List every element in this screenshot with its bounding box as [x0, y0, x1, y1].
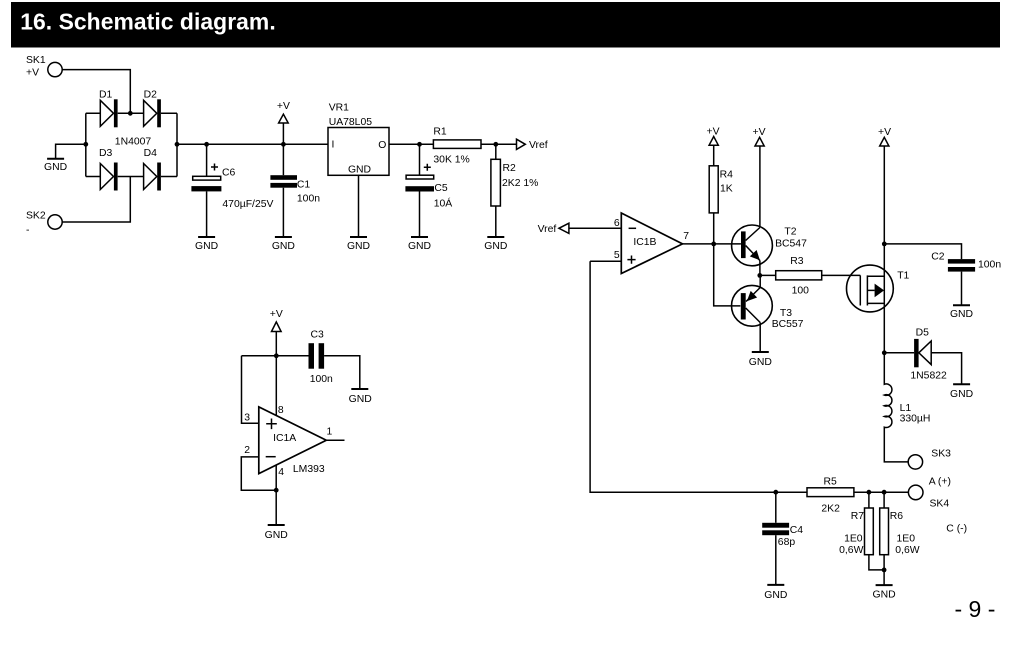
wire bottom rail R5 to SK4 — [854, 491, 909, 493]
svg-text:330µH: 330µH — [900, 414, 931, 425]
wire T3 collector to ground — [759, 323, 761, 353]
svg-text:IC1A: IC1A — [273, 433, 296, 444]
power +V above C3 — [270, 309, 283, 356]
op-amp IC1B — [614, 213, 689, 274]
power +V above T2 — [753, 127, 766, 228]
svg-text:0,6W: 0,6W — [839, 545, 863, 556]
svg-text:C2: C2 — [931, 251, 945, 262]
mosfet T1 — [847, 265, 910, 312]
svg-text:0,6W: 0,6W — [895, 545, 919, 556]
wire VR1 out to R1 — [389, 143, 433, 145]
wire pin5 down and bottom rail — [590, 261, 807, 492]
node pin4/pin2 junction — [274, 488, 279, 493]
svg-text:IC1B: IC1B — [633, 237, 656, 248]
svg-text:D5: D5 — [916, 327, 930, 338]
svg-text:GND: GND — [749, 357, 772, 368]
svg-text:16. Schematic diagram.: 16. Schematic diagram. — [20, 8, 276, 34]
svg-text:1N5822: 1N5822 — [910, 370, 947, 381]
node output/R4/T3 — [711, 242, 716, 247]
wire main rail bridge to VR1 — [177, 143, 328, 145]
svg-text:D1: D1 — [99, 90, 113, 101]
wire IC1A output — [326, 439, 344, 441]
svg-text:GND: GND — [950, 309, 973, 320]
node SK1/D1-D2 junction — [128, 111, 133, 116]
wire R7 stub — [868, 492, 870, 508]
diode D1 — [99, 90, 118, 128]
svg-text:+V: +V — [707, 126, 720, 137]
svg-text:+V: +V — [270, 309, 283, 320]
svg-text:GND: GND — [408, 241, 431, 252]
transistor T3 BC557 — [732, 285, 804, 330]
capacitor C5 — [405, 164, 452, 210]
svg-text:100: 100 — [792, 285, 810, 296]
wire SK1 to bridge top — [62, 70, 130, 114]
svg-text:VR1: VR1 — [329, 103, 349, 114]
ground T3 — [749, 352, 772, 368]
svg-text:GND: GND — [484, 241, 507, 252]
svg-text:D3: D3 — [99, 148, 113, 159]
svg-text:BC557: BC557 — [772, 319, 804, 330]
svg-text:100n: 100n — [978, 260, 1001, 271]
ground C2 — [950, 305, 973, 320]
wire IC1B output to T2 base — [683, 243, 741, 245]
svg-text:SK1: SK1 — [26, 55, 46, 66]
svg-text:GND: GND — [348, 164, 371, 175]
ground R6/R7 — [873, 585, 896, 600]
node emitters/R3 — [757, 273, 762, 278]
node R2 tap — [493, 142, 498, 147]
svg-text:- 9 -: - 9 - — [955, 596, 996, 622]
svg-text:1E0: 1E0 — [897, 533, 916, 544]
svg-text:1: 1 — [327, 426, 333, 437]
diode D5 1N5822 — [910, 327, 947, 381]
svg-text:2K2: 2K2 — [821, 503, 840, 514]
node drain/+V/C2 — [882, 242, 887, 247]
op-amp IC1A — [244, 405, 332, 478]
wire C3 right to ground — [324, 356, 360, 389]
wire bridge right side — [176, 113, 178, 176]
svg-text:GND: GND — [265, 530, 288, 541]
resistor R3 — [776, 256, 822, 296]
svg-text:5: 5 — [614, 250, 620, 261]
svg-text:R6: R6 — [890, 511, 904, 522]
svg-text:Vref: Vref — [538, 224, 557, 235]
title bar — [11, 2, 1000, 48]
svg-text:T3: T3 — [780, 308, 792, 319]
svg-text:Vref: Vref — [529, 140, 548, 151]
wire pin6 — [569, 227, 621, 229]
wire pin4 to ground — [275, 465, 277, 525]
svg-text:2: 2 — [244, 445, 250, 456]
wire node to R3 — [760, 274, 776, 276]
inductor L1 330uH — [884, 353, 930, 462]
wire T2 emitter to node — [759, 261, 761, 276]
resistor R1 — [433, 127, 481, 166]
svg-text:1E0: 1E0 — [844, 533, 863, 544]
diode D2 — [144, 90, 161, 128]
wire C4 branch — [775, 492, 777, 523]
node C4 tap — [773, 490, 778, 495]
svg-text:6: 6 — [614, 218, 620, 229]
svg-text:D2: D2 — [144, 90, 158, 101]
svg-text:470µF/25V: 470µF/25V — [222, 199, 273, 210]
wire to C2 — [884, 244, 961, 259]
svg-text:GND: GND — [950, 389, 973, 400]
wire to ground tap — [56, 144, 86, 159]
svg-text:A (+): A (+) — [929, 477, 951, 488]
node +V/C3/pin8 — [274, 353, 279, 358]
svg-text:GND: GND — [195, 241, 218, 252]
node R6 tap — [882, 490, 887, 495]
ground C5 — [408, 237, 431, 252]
connector SK1 — [26, 55, 62, 79]
wire R6 stub — [883, 492, 885, 508]
svg-text:C6: C6 — [222, 167, 236, 178]
wire C6 branch — [206, 144, 208, 176]
wire C6 to ground — [206, 191, 208, 237]
svg-text:GND: GND — [44, 162, 67, 173]
wire pin8 supply — [275, 356, 277, 416]
resistor R6 — [880, 508, 920, 556]
svg-text:SK4: SK4 — [930, 499, 950, 510]
ground IC1A — [265, 525, 288, 541]
power +V above T1 — [878, 127, 891, 244]
svg-text:100n: 100n — [297, 194, 320, 205]
svg-text:+V: +V — [277, 101, 290, 112]
svg-text:C5: C5 — [434, 183, 448, 194]
svg-text:4: 4 — [278, 467, 284, 478]
svg-text:1K: 1K — [720, 184, 733, 195]
svg-text:O: O — [378, 140, 386, 151]
svg-text:SK3: SK3 — [931, 449, 951, 460]
wire node to D5 — [884, 352, 914, 354]
svg-text:C3: C3 — [311, 330, 325, 341]
node R7/R6 bottom junction — [882, 568, 887, 573]
svg-text:R5: R5 — [824, 477, 838, 488]
svg-text:LM393: LM393 — [293, 464, 325, 475]
wire pin3 feed — [242, 356, 259, 424]
node C5 tap — [417, 142, 422, 147]
svg-text:D4: D4 — [144, 148, 158, 159]
transistor T2 BC547 — [732, 225, 807, 266]
wire C2 to ground — [961, 272, 963, 306]
wire bridge top row — [86, 112, 177, 114]
capacitor C3 — [309, 330, 334, 385]
capacitor C4 — [762, 523, 803, 548]
ground C4 — [764, 585, 787, 601]
net arrow Vref in — [538, 223, 569, 235]
node R7 tap — [867, 490, 872, 495]
ground D5 — [950, 384, 973, 400]
svg-text:1N4007: 1N4007 — [115, 137, 152, 148]
wire T1 drain-source vertical — [883, 244, 885, 353]
svg-text:30K 1%: 30K 1% — [433, 155, 469, 166]
connector SK2 — [26, 210, 62, 236]
capacitor C1 — [270, 175, 320, 204]
svg-text:GND: GND — [349, 394, 372, 405]
resistor R4 — [709, 166, 733, 213]
wire bridge bottom to SK2 — [62, 177, 130, 223]
resistor R5 — [807, 477, 854, 515]
power +V above R4 — [707, 126, 720, 165]
ground left — [44, 159, 67, 173]
capacitor C2 — [931, 251, 1001, 271]
svg-text:+V: +V — [26, 68, 39, 79]
ground C6 — [195, 237, 218, 252]
capacitor C6 — [191, 164, 273, 211]
svg-text:UA78L05: UA78L05 — [329, 117, 373, 128]
wire C1 branch — [282, 144, 284, 175]
ground R2 — [484, 237, 507, 252]
wire VR1 to ground — [358, 175, 360, 237]
node C6 tap — [204, 142, 209, 147]
svg-text:-: - — [26, 225, 29, 236]
diode D3 — [99, 148, 118, 190]
power +V above C1 — [277, 101, 290, 144]
wire R1 to Vref arrow — [481, 143, 517, 145]
wire R6 bottom to ground — [883, 555, 885, 585]
svg-text:R4: R4 — [720, 169, 734, 180]
wire R2 branch — [495, 144, 497, 159]
ground VR1 — [347, 237, 370, 252]
resistor R2 — [491, 159, 539, 206]
svg-text:GND: GND — [272, 241, 295, 252]
svg-text:100n: 100n — [310, 374, 333, 385]
ground C3 — [349, 389, 372, 405]
svg-text:2K2 1%: 2K2 1% — [502, 178, 538, 189]
wire R7 bottom to junction — [869, 555, 884, 570]
svg-text:C1: C1 — [297, 180, 311, 191]
wire R3 to T1 gate — [822, 274, 861, 276]
svg-text:3: 3 — [244, 412, 250, 423]
wire bridge left side — [85, 113, 87, 176]
svg-text:R1: R1 — [433, 127, 447, 138]
wire C4 to ground — [775, 535, 777, 585]
svg-text:T2: T2 — [784, 227, 796, 238]
wire C1 to ground — [282, 188, 284, 237]
wire C5 to ground — [419, 192, 421, 238]
svg-text:I: I — [332, 140, 335, 151]
wire R2 to ground — [495, 206, 497, 237]
svg-text:SK2: SK2 — [26, 210, 46, 221]
wire bridge bottom row — [86, 176, 177, 178]
net arrow Vref out — [517, 139, 548, 151]
wire pin5 — [590, 260, 621, 262]
svg-text:R2: R2 — [503, 163, 517, 174]
svg-text:C4: C4 — [790, 525, 804, 536]
wire C5 branch — [419, 144, 421, 175]
svg-text:GND: GND — [764, 590, 787, 601]
svg-text:10Á: 10Á — [434, 197, 453, 210]
svg-text:68p: 68p — [778, 537, 796, 548]
wire node to T3 emitter — [759, 275, 761, 287]
ground C1 — [272, 237, 295, 252]
resistor R7 — [839, 508, 873, 556]
wire D5 anode to ground — [931, 353, 961, 385]
regulator VR1 UA78L05 — [328, 103, 389, 176]
svg-text:R3: R3 — [790, 256, 804, 267]
wire R4 to node — [713, 213, 715, 244]
connector SK3 — [908, 449, 951, 470]
svg-text:L1: L1 — [900, 403, 912, 414]
connector SK4 — [908, 485, 949, 510]
node bridge left mid — [83, 142, 88, 147]
svg-text:GND: GND — [347, 241, 370, 252]
svg-text:R7: R7 — [851, 511, 865, 522]
svg-text:7: 7 — [683, 231, 689, 242]
svg-text:+V: +V — [753, 127, 766, 138]
svg-text:8: 8 — [278, 405, 284, 416]
wire pin2 feedback loop — [241, 457, 276, 490]
svg-text:T1: T1 — [897, 271, 909, 282]
svg-text:BC547: BC547 — [775, 238, 807, 249]
node C1 tap — [281, 142, 286, 147]
node source/D5/L1 — [882, 350, 887, 355]
svg-text:C (-): C (-) — [946, 523, 967, 534]
svg-text:GND: GND — [873, 590, 896, 601]
wire node down to T3 base — [714, 244, 741, 306]
node bridge right mid — [175, 142, 180, 147]
diode D4 — [144, 148, 161, 190]
wire C3 row left — [242, 355, 309, 357]
